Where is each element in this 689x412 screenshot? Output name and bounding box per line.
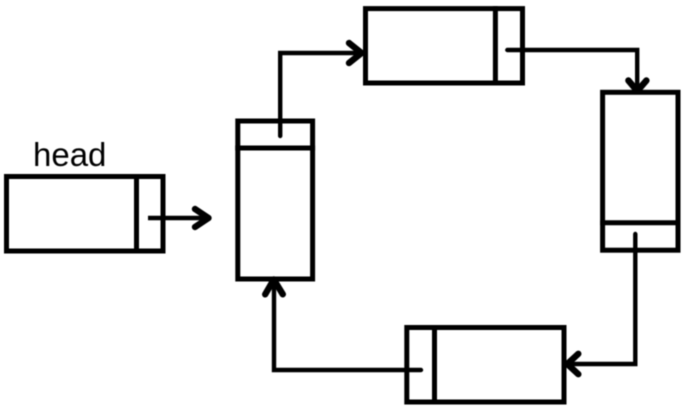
svg-text:head: head: [33, 136, 106, 173]
